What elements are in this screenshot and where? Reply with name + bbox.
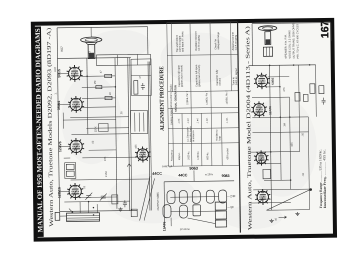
svg-text:adequate range: adequate range [217,31,220,49]
resistor R10 [105,96,112,99]
trimmer capacitor C1 [100,194,107,201]
svg-text:600 cycles: 600 cycles [226,147,229,159]
wire [59,145,70,147]
svg-text:Loading Capacitor: Loading Capacitor [170,106,173,126]
wire [86,127,128,130]
capacitor C30 [322,98,326,105]
chassis tube layout drawing [162,163,236,231]
node [270,151,272,153]
coil winding [134,113,136,132]
dial cord diagonal [266,189,311,210]
speaker SP1 [81,37,102,59]
resistor R23 [295,92,300,101]
wire [131,74,151,76]
node [309,64,311,66]
svg-text:12 ohms: 12 ohms [180,227,191,231]
dial pointer [309,188,312,191]
svg-text:9083: 9083 [222,174,230,178]
svg-text:220K: 220K [94,126,97,132]
wire [58,103,70,105]
svg-text:1M: 1M [94,81,97,85]
wire [252,131,308,134]
node [293,64,295,66]
oscillator coil L5 box [263,169,271,178]
wire [290,97,291,189]
svg-text:Intermediate Freq. ...........: Intermediate Freq. .............. 455 kc… [322,149,327,208]
wire [266,209,309,212]
IF transformer T1 (boxed) [65,163,76,179]
wire - drop to gang box [147,27,149,55]
page frame (tilted scanned page border) [33,20,335,240]
svg-text:—5F: —5F [227,205,234,209]
resistor R22 [319,86,324,94]
svg-text:w 250v: w 250v [205,173,214,176]
wire - loop drop [79,202,81,213]
svg-text:50B5: 50B5 [271,77,275,85]
svg-text:.1 mf.: .1 mf. [178,118,181,124]
svg-text:50C5: 50C5 [57,69,61,78]
volume pot terminal box [131,209,137,217]
IF can T2 [130,110,147,133]
svg-text:1400 kc.: 1400 kc. [197,150,200,159]
svg-text:600 kc.: 600 kc. [206,152,209,160]
svg-text:VOICE COIL: 3.2 OHMS: VOICE COIL: 3.2 OHMS [287,30,291,59]
capacitor C5 [123,200,127,207]
wire [64,157,70,159]
wire [170,218,172,226]
electrolytic capacitor C21C [215,220,226,227]
svg-text:OUTPUT TRANS. 2500 OHMS: OUTPUT TRANS. 2500 OHMS [291,22,295,58]
wire [264,179,290,181]
wire [89,149,116,151]
tube socket [167,191,175,204]
svg-text:44CC: 44CC [178,173,188,177]
svg-text:(plates out of mesh): (plates out of mesh) [198,65,201,87]
node [280,116,282,118]
wire - pin leads [81,75,115,77]
node [115,86,117,88]
tube socket [206,190,214,203]
node [279,86,281,88]
wire [82,156,137,159]
ground [295,212,299,216]
svg-text:455 kc.: 455 kc. [178,152,181,160]
tube socket [179,205,187,218]
tube socket [179,190,187,203]
wire - chassis outline [164,180,234,183]
svg-text:1400 kc. signal: 1400 kc. signal [235,68,238,85]
alignment table grid [167,22,239,166]
svg-text:SIGNAL GENERATOR: SIGNAL GENERATOR [173,85,177,112]
svg-text:47K: 47K [283,87,286,92]
svg-text:.1 mf.: .1 mf. [187,118,190,124]
wire [308,117,309,210]
tube V4 50C5 [67,65,83,82]
svg-text:1M: 1M [283,123,286,127]
wire [62,113,64,129]
wire [115,58,117,209]
node [289,116,291,118]
antenna plug P1 [55,212,60,220]
wire [136,54,138,65]
wire [250,202,290,205]
wire [75,196,116,199]
wire - top rail [252,23,331,24]
wire [82,86,115,88]
svg-text:2.2M: 2.2M [105,171,108,177]
svg-text:.1 mf.: .1 mf. [226,117,229,123]
wire - loop drop [88,202,90,213]
wire [82,106,116,108]
wire [330,23,332,41]
tube V9 12BE6 [255,189,270,205]
tuning gang box [96,54,150,65]
svg-text:Connection to Radio: Connection to Radio [170,84,173,106]
left title banner [33,26,43,236]
node [86,76,88,78]
wire [251,24,254,66]
svg-text:C1-B on gang: C1-B on gang [197,35,200,51]
wire [58,73,69,75]
svg-text:12BE6, Pin 7: 12BE6, Pin 7 [186,90,189,105]
capacitor C19 [141,83,145,90]
output transformer T3 [263,47,272,56]
wire - B- bus [59,210,137,211]
tube socket [163,205,171,218]
svg-text:9063: 9063 [189,166,198,171]
wire [270,65,272,210]
trimmer capacitor C2 [85,193,92,200]
svg-text:12BE6, Pin 7: 12BE6, Pin 7 [205,90,208,105]
wire [315,65,318,117]
tube V1 12BE6 [67,183,83,200]
resistor R12 [193,205,201,216]
wire [71,133,128,136]
node [93,214,95,216]
wiper arrow [127,164,131,167]
wire [252,96,289,98]
resistor R9 [105,74,112,77]
wire [116,55,118,66]
capacitor C31 [303,94,308,101]
svg-text:C1-A on gang: C1-A on gang [234,34,237,50]
svg-text:at antenna: at antenna [192,130,195,142]
svg-text:M23: M23 [87,51,91,57]
svg-text:.1 mf.: .1 mf. [206,117,209,123]
wire [257,163,281,165]
node [93,207,95,209]
svg-text:closed: closed [219,78,222,86]
svg-text:loop: loop [218,135,221,140]
svg-text:ALIGNMENT PROCEDURE: ALIGNMENT PROCEDURE [159,66,166,131]
svg-text:1.: 1. [53,92,57,95]
node [88,201,90,203]
tube V5 35W4 [68,96,84,113]
svg-text:12BE6, Pin 7: 12BE6, Pin 7 [225,90,228,105]
section divider line [238,22,241,233]
resistor R21 [310,84,315,94]
svg-text:OUTPUT 50B5: OUTPUT 50B5 [156,192,160,211]
wire [170,210,215,213]
svg-text:Frequency: Frequency [170,149,173,161]
wire [170,196,218,199]
coil L2 [66,164,74,169]
tube V7 12AT6 [251,101,267,118]
scan texture blotches [60,27,318,231]
svg-text:JAM? 10: JAM? 10 [162,164,173,168]
electrolytic capacitor C21B [215,211,226,219]
wire [82,97,115,99]
wire [252,116,308,119]
svg-text:35W4: 35W4 [57,101,61,110]
wire [150,61,152,210]
arrow [279,216,287,219]
svg-text:455: 455 [291,142,294,147]
arrow to loop [69,208,73,212]
component box C18 [99,124,109,132]
electrolytic capacitor C21A [215,202,226,210]
wire - right edge double line [148,61,150,210]
wire - loop drop [96,204,98,213]
svg-text:SPEAKER: 4 in. P.M.: SPEAKER: 4 in. P.M. [283,34,287,59]
wire [71,179,150,180]
wire - top antenna rail [57,27,147,28]
wire [130,58,132,211]
schematic 2: Truetone D2004 receiver [248,22,334,223]
node [269,65,271,67]
wire [63,118,115,121]
svg-text:and input I.F. trans.: and input I.F. trans. [181,30,184,52]
wire [188,218,216,224]
resistor R11 [134,81,138,95]
svg-text:.1 mf.: .1 mf. [196,117,199,123]
tube socket [192,190,200,203]
wire [253,188,309,191]
padder capacitor C3 [112,195,118,204]
tube V3 12AV6 [68,138,84,155]
tube socket [219,190,227,203]
svg-text:12AV6: 12AV6 [58,141,62,152]
wire - left rail [57,28,59,212]
wire [268,76,289,78]
wire [265,86,279,88]
schematic 1: Truetone D2092/D2093 receiver [53,27,154,222]
coil winding [143,113,145,132]
wire - B+ rail [86,58,89,134]
dial cord line [144,178,156,220]
coil L3 [66,171,74,176]
ground [269,219,273,223]
wire [280,65,282,180]
wire [299,65,300,151]
coil winding [138,113,140,132]
svg-text:167: 167 [319,20,331,38]
ground [118,207,122,211]
wire - AVC bus [64,200,129,203]
tube V6 50B5 [254,73,270,90]
volume control R5 (double line) [128,58,130,211]
wire - speaker stem [90,27,92,37]
section box [131,59,151,96]
svg-text:1620 kc.: 1620 kc. [187,151,190,160]
tube V2 12BA6 [135,146,150,162]
capacitor C20 [96,85,102,88]
wire [163,182,166,228]
svg-text:—24F: —24F [227,194,235,198]
svg-text:12BE6: 12BE6 [57,187,61,198]
svg-text:44CC: 44CC [152,172,162,176]
dial cord line [139,176,151,220]
wire [59,191,69,193]
svg-text:(plates out of mesh): (plates out of mesh) [180,65,183,87]
loop antenna L1 [67,213,100,222]
wire - B+ bus [249,64,316,67]
wire [70,116,128,119]
svg-text:10K: 10K [104,156,107,161]
wire - chassis top rail [57,56,130,59]
node [290,179,292,181]
wire [193,170,195,181]
wire [60,215,67,217]
wire [250,150,300,153]
svg-text:455: 455 [135,144,138,149]
speaker SP2 [258,26,277,45]
tube V8 12BA6 [254,150,269,165]
svg-text:PRI. TO V.C. AT 400 CYCLES: PRI. TO V.C. AT 400 CYCLES [295,24,299,59]
svg-text:K07: K07 [60,46,64,52]
